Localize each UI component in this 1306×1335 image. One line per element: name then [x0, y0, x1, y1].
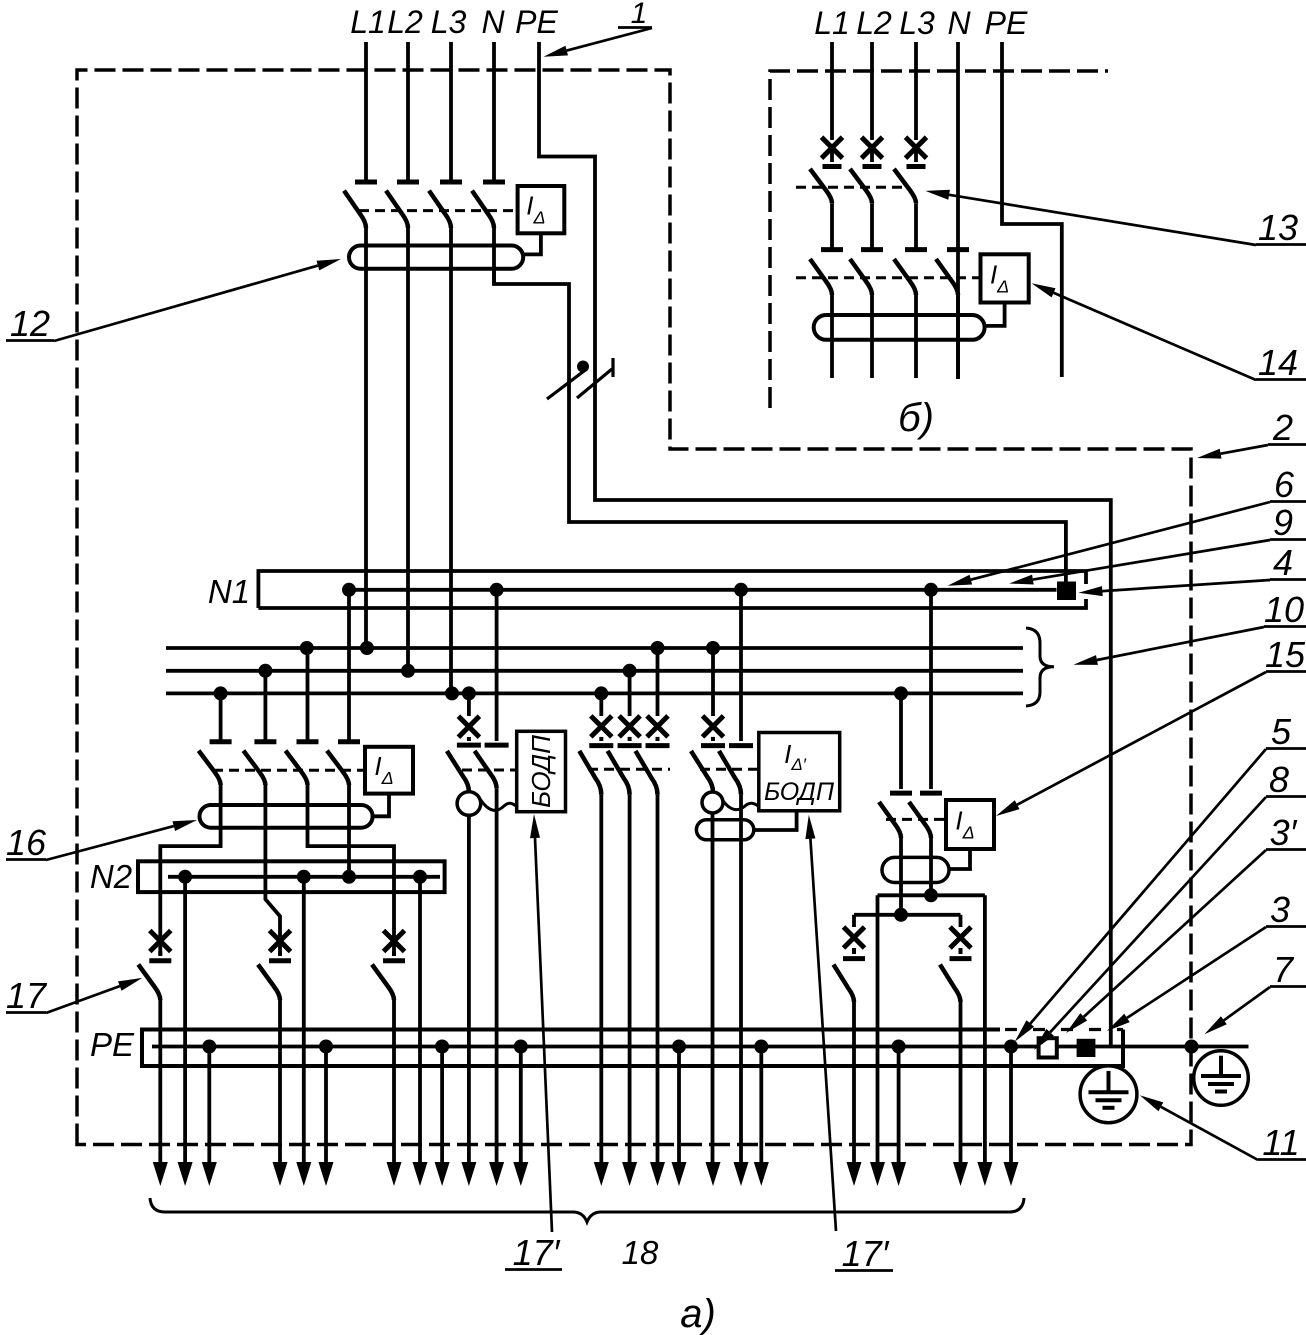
svg-text:4: 4: [1273, 542, 1293, 583]
RCD 12: pole conductors through toroid: [364, 228, 368, 648]
junction dot N2 tap 2: [297, 870, 311, 884]
RCD 15: differential relay box I-delta: [946, 800, 994, 849]
junction dot PE tap 8 (RCD15 right): [1004, 1040, 1018, 1054]
wire N link from RCD 12 to N1 bus: [494, 268, 1066, 582]
device B pole 1: blade: [579, 751, 601, 795]
breaker 13: fixed contacts: [823, 164, 842, 169]
RCD 16 feeders from distribution lines and N1: [219, 693, 223, 741]
breaker 13: pole blades: [810, 169, 832, 203]
RCD 15: pole blades: [879, 802, 901, 838]
disconnector 17 column 3: breaker cross mark: [384, 931, 405, 952]
svg-text:18: 18: [622, 1234, 659, 1271]
svg-text:N1: N1: [208, 573, 250, 610]
RCD 16: pole L3 out to disconnector column 3: [308, 785, 395, 955]
sub-switch 1 below RCD 15: breaker cross mark: [844, 927, 865, 948]
junction dot N1 / RCD16 N feed: [342, 583, 356, 597]
device B pole 2: blade: [608, 751, 630, 795]
svg-text:N: N: [947, 5, 971, 41]
device B2: relay/BODP block box: [759, 733, 840, 811]
ground electrode symbol 11 (protective earth at panel): [1080, 1066, 1137, 1123]
junction dot PE tap 1: [202, 1040, 216, 1054]
RCD 15: L pole down to split: [899, 838, 903, 915]
junction dot line3 / RCD16 tap: [214, 686, 228, 700]
junction dot line1 / L1 feed: [360, 641, 374, 655]
busbar N2 conductor: [168, 875, 440, 879]
disconnector 17 column 2: outgoing wire: [278, 1000, 282, 1170]
svg-text:L3: L3: [899, 5, 935, 41]
RCD 14: pole blades: [810, 259, 832, 295]
wire L2 drop (panel b): [870, 42, 874, 140]
wire N tap 1 to outgoing arrow: [183, 877, 187, 1170]
device A: outgoing L wire: [467, 815, 471, 1170]
device B2: release coil circle: [702, 792, 723, 813]
svg-text:11: 11: [1262, 1122, 1299, 1163]
RCD 15 feeder N from N1: [929, 590, 933, 789]
wire L split horizontal: [854, 913, 961, 917]
device A: pole blades: [447, 751, 469, 792]
sub-switch 2: blade: [940, 965, 961, 1002]
svg-text:17′: 17′: [842, 1233, 890, 1274]
group brace 18 under outgoing circuits: [150, 1198, 1024, 1222]
busbar N2 enclosure box: [138, 861, 445, 892]
RCD 14: differential relay box I-delta: [981, 254, 1029, 302]
RCD 15 feeder L from line3: [899, 693, 903, 789]
wire N split horizontal: [878, 893, 985, 897]
enclosure border 1 (panel a top box, dashed): [77, 70, 1191, 1145]
device B pole 3: wire to contact: [656, 737, 660, 741]
outgoing circuit arrows: [158, 1165, 162, 1168]
junction dot N2 tap 1: [178, 870, 192, 884]
svg-text:БОДП: БОДП: [764, 778, 835, 806]
disconnector 17 column 1: blade: [138, 965, 160, 1001]
wire N branch right: [983, 895, 987, 1170]
device B pole 3: blade: [636, 751, 658, 795]
junction dot PE tap 6 (device B2): [754, 1040, 768, 1054]
sub-switch 1: blade: [834, 965, 855, 1002]
RCD 15: wire relay box to toroid: [949, 849, 970, 869]
junction dot line2 / device B tap: [623, 664, 637, 678]
wire N branch left: [876, 895, 880, 1170]
RCD 12: linkage (dashed): [359, 209, 518, 212]
RCD 14 (4-pole, panel b): fixed contacts: [821, 247, 843, 252]
junction dot PE tap 5 (device B): [672, 1040, 686, 1054]
svg-text:L1: L1: [814, 5, 850, 41]
svg-text:5: 5: [1271, 711, 1292, 752]
device B2: outgoing L wire: [711, 813, 715, 1170]
device B pole 3: feeder: [656, 648, 660, 716]
svg-text:15: 15: [1265, 634, 1306, 675]
wire PE (panel b): down, right, down: [1002, 42, 1062, 377]
disconnector 17 column 3: fixed contact: [392, 952, 396, 957]
junction dot N2 tap 3: [413, 870, 427, 884]
RCD 16: fixed contacts: [210, 739, 232, 744]
device B2: wire cross to contact: [711, 737, 715, 741]
device B2: outgoing N wire: [739, 795, 743, 1170]
device A: release coil circle: [457, 792, 481, 816]
svg-text:PE: PE: [985, 5, 1028, 41]
disconnector 17 column 2: blade: [258, 965, 280, 1001]
device B pole 1: feeder: [599, 693, 603, 716]
svg-text:L1: L1: [350, 4, 386, 40]
svg-text:7: 7: [1273, 949, 1295, 990]
RCD 14: linkage (dashed): [796, 276, 981, 279]
disconnector 17 column 3: outgoing wire: [392, 1000, 396, 1170]
wire L3 drop (panel b): [914, 42, 918, 140]
junction dot PE tap 3: [435, 1040, 449, 1054]
device B pole 2: wire to contact: [628, 737, 632, 741]
wire L2 drop (panel a): [406, 42, 410, 182]
RCD 15: linkage (dashed): [886, 818, 946, 821]
sub-switch 1: wire to contact: [852, 948, 856, 954]
svg-text:N: N: [481, 4, 505, 40]
RCD 12: fixed contacts: [355, 180, 377, 185]
svg-text:2: 2: [1272, 407, 1293, 448]
svg-text:L3: L3: [431, 4, 467, 40]
svg-text:PE: PE: [90, 1026, 135, 1063]
RCD 16: differential relay box I-delta: [365, 747, 413, 794]
busbar N1 enclosure box: [258, 571, 1086, 608]
junction dot line3 / RCD15 tap: [894, 686, 908, 700]
device B pole 2: feeder: [628, 671, 632, 716]
svg-text:а): а): [680, 1292, 716, 1335]
brace of label 10 at right end of distribution lines: [1026, 628, 1054, 706]
open link 3' on PE bus (open square): [1039, 1038, 1057, 1057]
svg-text:1: 1: [631, 0, 648, 30]
wire N drop (panel b): [956, 42, 960, 379]
junction dot line2 / L2 feed: [401, 664, 415, 678]
device B2: fixed contacts: [701, 743, 725, 748]
device A: wavy link coil to BODP box: [481, 800, 517, 810]
busbar PE enclosure box (partly dashed): [142, 1030, 1123, 1067]
device B2 feeder L from line1: [711, 648, 715, 716]
device B2: pole blades: [691, 751, 713, 792]
junction dot N2 / RCD16 N: [342, 870, 356, 884]
busbar N1 conductor: [349, 588, 1057, 592]
RCD 15: toroid current transformer: [882, 857, 949, 882]
RCD 12: wire relay box to toroid: [523, 233, 541, 254]
device B pole 1: wire to contact: [599, 737, 603, 741]
junction dot N1 / device B2 N feed: [734, 583, 748, 597]
device B pole 1: breaker cross mark: [591, 716, 612, 737]
RCD 16: wire relay box to toroid: [373, 794, 389, 817]
device A: outgoing N wire: [495, 788, 499, 1170]
RCD 12: toroid current transformer: [349, 246, 523, 269]
RCD 16: pole L2 out with jog: [265, 785, 280, 955]
device B pole 2: outgoing wire: [628, 795, 632, 1170]
RCD 16: pole blades: [199, 751, 221, 785]
device B pole 3: fixed contact: [646, 743, 670, 748]
ground electrode symbol 7 (external earth): [1194, 1051, 1249, 1106]
svg-text:3: 3: [1270, 889, 1290, 930]
device B pole 2: fixed contact: [618, 743, 642, 748]
device A: BODP block box: [517, 731, 566, 811]
sub-switch 1: outgoing wire: [852, 1002, 856, 1170]
disconnector 17 column 2: fixed contact: [278, 952, 282, 957]
RCD 16: pole L1 out to disconnector column 1: [160, 785, 220, 955]
svg-text:PE: PE: [515, 4, 558, 40]
RCD 14: pole conductors through toroid: [830, 295, 834, 378]
device A: breaker cross mark: [458, 716, 479, 737]
disconnector 17 column 3: blade: [372, 965, 394, 1001]
junction dot on disconnect link: [577, 361, 589, 373]
distribution bus line 2 (middle): [166, 669, 1023, 673]
device B pole 2: breaker cross mark: [619, 716, 640, 737]
svg-text:L2: L2: [387, 4, 423, 40]
wire PE (panel a): down, right, down, right, down to PE bus: [539, 42, 1111, 1047]
RCD 16: linkage (dashed): [213, 769, 365, 772]
junction dot N split: [924, 888, 938, 902]
disconnector 17 column 1: outgoing wire: [158, 1000, 162, 1170]
device B pole 1: fixed contact: [589, 743, 613, 748]
RCD 12: pole blades: [344, 191, 366, 228]
wire N drop (panel a): [492, 42, 496, 182]
svg-text:17: 17: [6, 975, 48, 1016]
svg-text:9: 9: [1273, 502, 1293, 543]
sub-switch 1: fixed contact: [843, 956, 865, 961]
svg-text:N2: N2: [90, 858, 132, 895]
device A feeder L from line3: [467, 693, 471, 716]
sub-switch 2: wire to contact: [959, 948, 963, 954]
RCD 16: toroid current transformer: [200, 805, 373, 828]
circuit breaker 13 (3-pole, panel b): breaker cross marks: [822, 137, 843, 158]
removable link 4 on N1 bus (filled square): [1057, 582, 1076, 601]
svg-text:БОДП: БОДП: [526, 735, 556, 808]
device A feeder N from N1: [495, 590, 499, 741]
device A: linkage (dashed): [462, 769, 517, 772]
svg-text:10: 10: [1264, 589, 1304, 630]
wire N tap 3 to outgoing arrow: [418, 877, 422, 1170]
junction dot line1 / device B tap: [651, 641, 665, 655]
RCD 16: pole N out to N2 bus: [347, 785, 351, 877]
device B2 feeder N from N1: [739, 590, 743, 741]
junction dot PE tap 4 (device A): [514, 1040, 528, 1054]
junction dot line3 / L3 feed: [445, 686, 459, 700]
RCD 12: differential relay box I-delta: [518, 186, 565, 233]
device B: linkage (dashed): [588, 768, 670, 771]
junction dot line2 / RCD16 tap: [258, 664, 272, 678]
disconnector 17 column 1: fixed contact: [158, 952, 162, 957]
sub-switch 2: outgoing wire: [959, 1002, 963, 1170]
svg-text:14: 14: [1258, 342, 1298, 383]
distribution bus line 1 (top): [166, 646, 1023, 650]
breaker 13: linkage (dashed): [796, 186, 903, 189]
disconnect link symbol on N and PE risers: [547, 371, 584, 399]
RCD 14: wire relay box to toroid: [985, 303, 1005, 326]
junction dot line1 / RCD16 tap: [300, 641, 314, 655]
wire L3 drop (panel a): [449, 42, 453, 182]
link 3 on PE bus (filled square): [1077, 1039, 1096, 1057]
enclosure border (panel b, dashed): [770, 71, 1108, 408]
svg-text:3′: 3′: [1270, 812, 1298, 853]
device B2: toroid current transformer: [696, 820, 753, 840]
breaker 13: pole conductors to RCD 14: [830, 203, 834, 249]
svg-text:L2: L2: [856, 5, 892, 41]
junction dot line3 / device B tap: [594, 686, 608, 700]
device B2: breaker cross mark: [703, 716, 724, 737]
junction dot N1 / device A N feed: [490, 583, 504, 597]
RCD 15: fixed contacts: [890, 791, 912, 796]
RCD 14: toroid current transformer: [814, 315, 985, 340]
svg-text:13: 13: [1258, 207, 1298, 248]
RCD 15: N pole down to split: [929, 838, 933, 895]
device A: fixed contacts: [457, 743, 481, 748]
device B2: wire toroid to BODP box: [754, 811, 797, 830]
disconnector 17 column 2: breaker cross mark: [270, 931, 291, 952]
distribution bus line 3 (bottom): [166, 692, 1023, 696]
svg-text:16: 16: [6, 822, 47, 863]
wire L1 drop (panel b): [830, 42, 834, 140]
svg-text:12: 12: [10, 303, 50, 344]
junction dot PE at border crossing: [1185, 1040, 1199, 1054]
device B2: wavy link coil to box: [723, 800, 759, 810]
junction dot PE tap 2: [319, 1040, 333, 1054]
junction dot line3 / device A tap: [462, 686, 476, 700]
wire L branch right down: [959, 915, 963, 927]
wire N tap 2 to outgoing arrow: [302, 877, 306, 1170]
svg-text:8: 8: [1269, 759, 1289, 800]
breaker 13: pole conductors upper: [830, 148, 834, 162]
device B2: linkage (dashed): [700, 768, 759, 771]
junction dot PE tap 7 (RCD15 left): [892, 1040, 906, 1054]
device A: wire cross to contact: [467, 737, 471, 741]
wire L branch left down: [852, 915, 856, 927]
junction dot N1 / RCD15 N feed: [924, 583, 938, 597]
disconnector 17 column 1: breaker cross mark: [150, 931, 171, 952]
device B pole 1: outgoing wire: [599, 795, 603, 1170]
sub-switch 2 below RCD 15: breaker cross mark: [950, 927, 971, 948]
svg-text:17′: 17′: [513, 1232, 561, 1273]
device B pole 3: outgoing wire: [656, 795, 660, 1170]
busbar PE conductor: [152, 1045, 1249, 1049]
PE tap wires to outgoing arrows: [207, 1047, 211, 1171]
device B pole 3: breaker cross mark: [647, 716, 668, 737]
sub-switch 2: fixed contact: [950, 956, 972, 961]
wire L1 drop (panel a): [364, 42, 368, 182]
svg-text:6: 6: [1274, 464, 1295, 505]
junction dot L split: [894, 908, 908, 922]
junction dot line1 / device B2 tap: [706, 641, 720, 655]
svg-text:б): б): [898, 396, 934, 440]
